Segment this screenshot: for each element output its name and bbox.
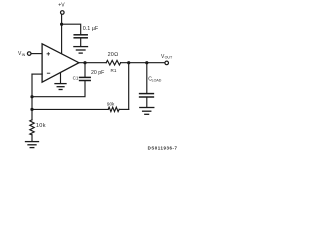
wire C1 bottom bbox=[32, 81, 85, 97]
terminal VOUT bbox=[161, 54, 173, 65]
wire R1 to VOUT bbox=[121, 62, 165, 64]
node feedback tap bbox=[127, 61, 130, 64]
svg-text:DS011936-7: DS011936-7 bbox=[148, 145, 178, 150]
node 90k return bbox=[30, 108, 33, 111]
figure number label bbox=[148, 145, 178, 150]
svg-text:20 pF: 20 pF bbox=[91, 70, 104, 76]
wire 10k to ground bbox=[31, 135, 33, 141]
capacitor CLOAD bbox=[140, 77, 162, 97]
wire 90k left segment bbox=[32, 108, 108, 110]
wire cap to ground bbox=[80, 39, 82, 47]
ground (CLOAD) bbox=[140, 108, 154, 115]
wire CLOAD to ground bbox=[146, 98, 148, 108]
wire 90k vertical bbox=[128, 63, 130, 110]
node op-amp output bbox=[83, 61, 86, 64]
svg-text:+V: +V bbox=[58, 2, 65, 8]
wire op-amp ground pin bbox=[60, 73, 62, 84]
ground (10k) bbox=[26, 142, 39, 148]
op-amp U1 bbox=[42, 44, 79, 82]
svg-text:LOAD: LOAD bbox=[152, 79, 162, 83]
svg-text:IN: IN bbox=[22, 53, 26, 57]
wire inverting input bbox=[32, 73, 42, 75]
svg-text:0.1 µF: 0.1 µF bbox=[83, 26, 99, 32]
wire 90k right segment bbox=[119, 108, 129, 110]
wire +V stem bbox=[61, 14, 63, 53]
svg-text:10k: 10k bbox=[36, 123, 46, 129]
wire VIN to op-amp bbox=[31, 53, 42, 55]
wire CLOAD lead bbox=[146, 63, 148, 93]
wire decoupling branch bbox=[62, 24, 81, 34]
wire output to R1 bbox=[79, 62, 106, 64]
wire feedback vertical bbox=[31, 74, 33, 120]
resistor 10k bbox=[30, 120, 46, 135]
node C1 return bbox=[30, 95, 33, 98]
ground (0.1uF) bbox=[74, 47, 88, 54]
svg-text:20Ω: 20Ω bbox=[108, 52, 119, 58]
terminal VIN bbox=[18, 51, 31, 57]
svg-text:R1: R1 bbox=[111, 68, 117, 73]
resistor 90k bbox=[107, 102, 119, 112]
svg-text:90k: 90k bbox=[107, 102, 115, 107]
terminal +V bbox=[58, 2, 65, 14]
node supply junction bbox=[60, 23, 63, 26]
resistor R1 20ohm bbox=[106, 52, 120, 73]
ground (op-amp) bbox=[55, 84, 66, 90]
svg-text:C1: C1 bbox=[73, 76, 79, 81]
node load tap bbox=[145, 61, 148, 64]
wire C1 top lead bbox=[84, 63, 86, 78]
svg-text:OUT: OUT bbox=[165, 56, 173, 60]
capacitor 0.1uF bbox=[74, 26, 99, 38]
capacitor C1 20pF bbox=[73, 70, 105, 81]
